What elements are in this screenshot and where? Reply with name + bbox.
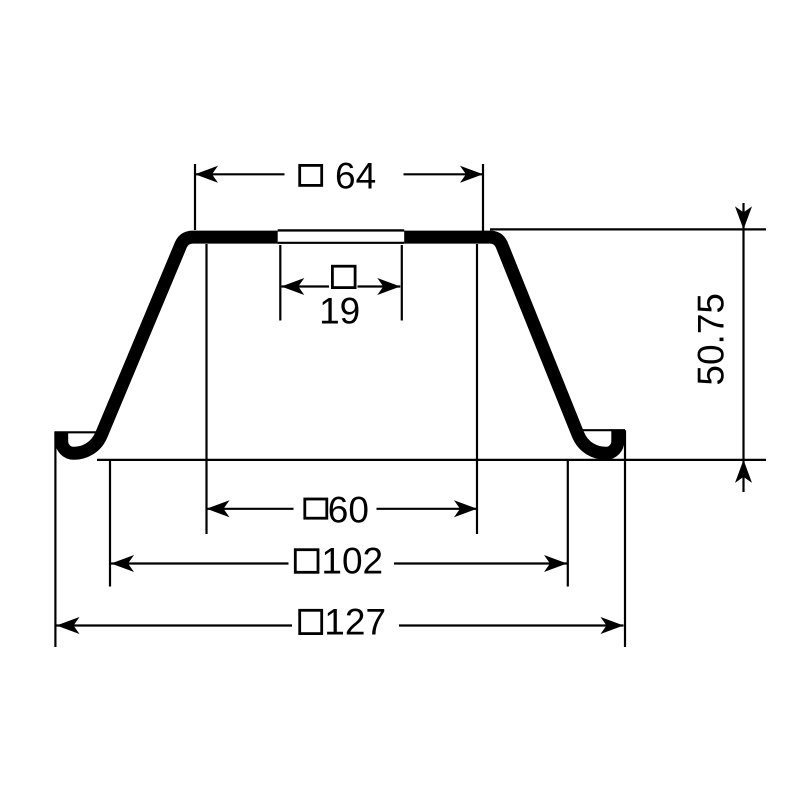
dim 127 extension line right	[624, 430, 626, 647]
dim 127 extension line left	[54, 432, 56, 647]
dim 60 arrow left	[207, 500, 230, 517]
dim 19 line left segment	[281, 285, 329, 287]
dim 60 arrow right	[454, 500, 477, 517]
dim 60 line left segment	[207, 508, 294, 510]
svg-text:19: 19	[319, 291, 360, 332]
dim 127 line left segment	[57, 624, 293, 626]
dim 50.75 vertical line	[742, 203, 744, 492]
dim 50.75 arrow top (points down)	[735, 206, 752, 229]
svg-text:60: 60	[328, 490, 369, 531]
dim 50.75 top extension line	[490, 228, 766, 230]
dim 127 arrow right	[601, 617, 624, 634]
svg-text:102: 102	[321, 541, 383, 582]
dim 102 arrow left	[111, 555, 134, 572]
left foot top line	[54, 431, 96, 433]
base line / bottom extension line	[97, 459, 766, 461]
svg-text:64: 64	[335, 155, 376, 196]
slot bottom edge	[278, 242, 405, 244]
right foot top line	[582, 429, 625, 431]
profile: thick hat-section cross-section	[62, 237, 618, 453]
dim 19 line right segment	[358, 285, 401, 287]
dim 60 square symbol	[305, 499, 327, 518]
dim 19 extension line left	[279, 245, 281, 321]
dim 127 square symbol	[300, 610, 322, 633]
dim 64 line right segment	[404, 173, 484, 175]
dim 64 square symbol	[300, 165, 322, 185]
dim 19 arrow left	[281, 278, 304, 295]
dim 64 extension line right	[482, 164, 484, 231]
dim 102 line left segment	[111, 562, 289, 564]
slot top edge	[278, 229, 405, 231]
dim 102 arrow right	[544, 555, 567, 572]
dim 64 arrow right	[460, 166, 483, 183]
dim 64 arrow left	[195, 166, 218, 183]
dim 102 square symbol	[295, 550, 318, 573]
dim 19 arrow right	[377, 278, 400, 295]
dim 102 line right segment	[394, 562, 567, 564]
dim 19 square symbol	[332, 266, 355, 287]
svg-text:127: 127	[324, 602, 386, 643]
dim 60 line right segment	[377, 508, 478, 510]
dim 64 extension line left	[194, 164, 196, 230]
dim 19 extension line right	[401, 245, 403, 321]
svg-text:50.75: 50.75	[691, 293, 732, 386]
dim 127 arrow left	[57, 617, 80, 634]
dim 60 extension line right	[476, 244, 478, 534]
slot: thin-walled section in top face	[278, 232, 405, 243]
dim 102 extension line left	[109, 460, 111, 587]
dim 50.75 arrow bottom (points up)	[735, 460, 752, 483]
dim 102 extension line right	[567, 460, 569, 587]
dim 60 extension line left	[205, 244, 207, 534]
dim 64 line left segment	[195, 173, 285, 175]
dim 127 line right segment	[399, 624, 624, 626]
